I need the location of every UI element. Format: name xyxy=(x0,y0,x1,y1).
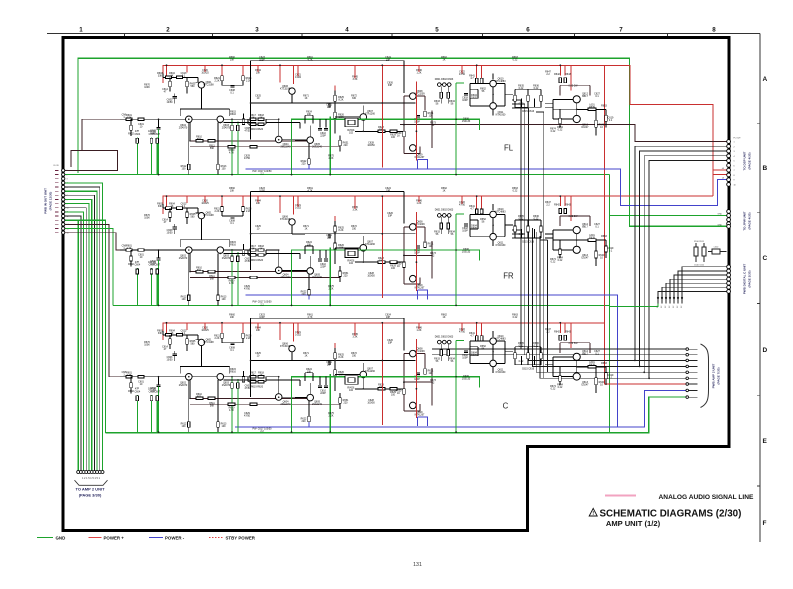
svg-text:ANALOG AUDIO SIGNAL LINE: ANALOG AUDIO SIGNAL LINE xyxy=(659,494,754,501)
wire: FR ground bottom rail xyxy=(113,305,610,307)
wire: CN101 pin14 to C input xyxy=(64,224,121,376)
wire fan: CN101 pins to vertical harness bus xyxy=(64,183,103,471)
svg-text:(PAGE 3/30): (PAGE 3/30) xyxy=(79,492,102,497)
connector bracket xyxy=(75,480,108,485)
wire: CN101 pin2 ground into FL bottom rail xyxy=(64,174,79,176)
junction tiny labels xyxy=(657,305,683,308)
amplifier channel block FL xyxy=(120,56,614,176)
wire: FL ground bottom rail to mid connector and down xyxy=(64,175,728,433)
svg-text:TO AMP 2 UNIT: TO AMP 2 UNIT xyxy=(75,486,105,491)
svg-text:TO DSP UNIT: TO DSP UNIT xyxy=(743,151,747,170)
wire: C block outputs to AMP2 connector pins 1-2 xyxy=(432,349,686,355)
svg-text:10: 10 xyxy=(734,184,736,186)
svg-text:PWB AMP 2 UNIT: PWB AMP 2 UNIT xyxy=(712,364,716,389)
wire: CN101 pin15 green to FR ground rail xyxy=(64,229,114,306)
svg-text:D: D xyxy=(763,347,768,354)
svg-text:FL: FL xyxy=(504,144,514,153)
tiny labels left of DSP power pins xyxy=(721,168,724,180)
svg-text:SCHEMATIC DIAGRAMS (2/30): SCHEMATIC DIAGRAMS (2/30) xyxy=(600,509,742,520)
wire: CN101 pin13 green to C ground rail xyxy=(64,220,106,433)
svg-text:FL OUT: FL OUT xyxy=(734,138,742,140)
svg-text:POWER +: POWER + xyxy=(104,535,125,540)
svg-text:GND: GND xyxy=(718,224,723,226)
svg-text:1: 1 xyxy=(734,142,735,144)
svg-text:GND: GND xyxy=(56,535,66,540)
svg-text:E: E xyxy=(763,438,768,445)
legend POWER+ red line xyxy=(89,537,102,539)
svg-text:PWB IN OUT UNIT: PWB IN OUT UNIT xyxy=(44,188,48,214)
wire: FL audio output (dark) to DSP connector pin 1 xyxy=(400,125,727,142)
svg-text:STBY POWER: STBY POWER xyxy=(226,535,256,540)
svg-text:8: 8 xyxy=(712,27,716,34)
svg-text:8: 8 xyxy=(734,175,735,177)
svg-text:C510 C511: C510 C511 xyxy=(694,265,705,267)
legend GND green line xyxy=(37,537,53,539)
analog audio signal line sample (pink) xyxy=(605,495,636,497)
svg-text:A: A xyxy=(763,76,768,83)
junction dots row xyxy=(657,297,683,304)
wire bundle: DSP connector pins down to AMP2 lines xyxy=(635,146,727,378)
svg-text:GND: GND xyxy=(718,214,723,216)
right ruler line xyxy=(759,34,761,543)
svg-text:C: C xyxy=(763,255,768,262)
wire: FL POWER- rail to DSP connector blue pin xyxy=(246,169,727,206)
svg-text:B: B xyxy=(763,165,768,172)
wire: FL POWER+ rail, down-run to AMP2 connector red pin xyxy=(163,65,686,384)
wire: CN101 pin16 to FR input xyxy=(64,233,121,250)
connector PWB AMP2 UNIT pins xyxy=(686,348,698,399)
column numbers 1-8 xyxy=(79,27,716,34)
svg-text:(PAGE 7/30): (PAGE 7/30) xyxy=(717,368,721,385)
svg-text:4: 4 xyxy=(734,156,735,158)
svg-text:5: 5 xyxy=(435,27,439,34)
connector to AMP2 board: pin circles xyxy=(77,471,104,474)
svg-text:(PAGE 3/30): (PAGE 3/30) xyxy=(748,271,752,288)
top ruler line xyxy=(47,33,760,35)
green stub near digital connector xyxy=(610,304,659,307)
connector TO DSP UNIT labels xyxy=(734,138,742,187)
connector TO DSP UNIT: pin circles on frame edge xyxy=(727,140,731,187)
amplifier channel block FR xyxy=(120,187,614,307)
thick schematic border frame with bottom-right notch xyxy=(63,37,729,530)
svg-text:1 2 1 5 1 5 1 5 1: 1 2 1 5 1 5 1 5 1 xyxy=(82,477,101,480)
svg-text:FL IN: FL IN xyxy=(54,165,59,167)
svg-text:6: 6 xyxy=(734,165,735,167)
svg-text:3: 3 xyxy=(67,179,68,181)
wire: POWER+ branch over to DSP connector and down to FR rail xyxy=(604,65,726,196)
wire bundle: speaker outputs descending to AMP2 connector xyxy=(521,100,686,378)
svg-text:1: 1 xyxy=(79,27,83,34)
legend POWER- blue line xyxy=(149,537,163,539)
svg-text:4: 4 xyxy=(345,27,349,34)
connector TO JPW UNIT: pin circles xyxy=(727,210,731,229)
svg-text:6: 6 xyxy=(526,27,530,34)
svg-text:9: 9 xyxy=(734,180,735,182)
connector PWB AMP2 bracket xyxy=(701,344,709,408)
wire: output stubs into bundle xyxy=(512,100,548,240)
wire: C POWER- rail to AMP2 connector blue pin xyxy=(235,390,686,426)
wire: FL audio input loop from CN101 pin 1 xyxy=(64,119,121,170)
row letters A-F xyxy=(763,76,768,527)
svg-text:FR: FR xyxy=(503,272,514,281)
svg-text:C: C xyxy=(503,402,509,411)
svg-text:3: 3 xyxy=(255,27,259,34)
svg-text:PWB DIGITAL C UNIT: PWB DIGITAL C UNIT xyxy=(743,264,747,295)
svg-text:(PAGE 12/30): (PAGE 12/30) xyxy=(49,192,53,211)
svg-text:7: 7 xyxy=(734,170,735,172)
svg-text:2: 2 xyxy=(166,27,170,34)
svg-text:5: 5 xyxy=(734,161,735,163)
wire: FR POWER- rail down to C level xyxy=(246,295,618,427)
amplifier channel block C xyxy=(120,314,614,434)
svg-text:AMP UNIT (1/2): AMP UNIT (1/2) xyxy=(606,519,661,528)
svg-text:TO JPW UNIT: TO JPW UNIT xyxy=(743,211,747,230)
connector PWB DIGITAL: pin circles xyxy=(727,265,731,293)
tiny labels left of JPW pins xyxy=(718,214,723,227)
svg-text:3: 3 xyxy=(734,151,735,153)
connector CN101 pin circles xyxy=(62,169,65,235)
svg-text:7: 7 xyxy=(619,27,623,34)
wires: PWB DIGITAL pins to junction row xyxy=(658,267,727,298)
wire: FR POWER+ rail xyxy=(163,196,713,214)
svg-text:131: 131 xyxy=(413,562,422,568)
svg-text:2: 2 xyxy=(734,146,735,148)
svg-text:(PAGE 4/30): (PAGE 4/30) xyxy=(748,213,752,230)
filter cluster L51/R52 next to digital connector xyxy=(694,241,727,267)
connector CN101 pin name labels xyxy=(54,165,69,234)
svg-text:F: F xyxy=(763,520,767,527)
warning triangle symbol xyxy=(589,508,597,516)
svg-text:(PAGE 4/30): (PAGE 4/30) xyxy=(748,153,752,170)
junction dots on output bus xyxy=(634,360,650,380)
top ruler tick marks xyxy=(125,34,668,37)
svg-text:POWER -: POWER - xyxy=(165,535,185,540)
wire: C ground bottom rail to AMP2 connector pin xyxy=(106,397,686,433)
legend STBY POWER dashed red line xyxy=(209,537,224,539)
right ruler tick marks xyxy=(757,124,760,486)
wire: C POWER+ rail joining down-run xyxy=(163,323,604,340)
svg-text:R510 R511: R510 R511 xyxy=(694,241,705,243)
wire: GND top loop from left connector area across the top xyxy=(78,58,727,226)
